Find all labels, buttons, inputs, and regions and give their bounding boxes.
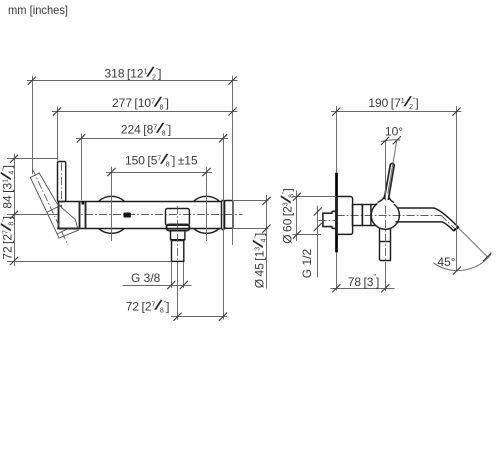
supply fitting G1/2 behind wall	[319, 211, 339, 228]
shower outlet pipe upper (front view)	[171, 231, 185, 240]
end cap Ø45 (front view)	[225, 201, 233, 229]
svg-text:mm [inches]: mm [inches]	[8, 3, 68, 17]
dimension G 3/8 label	[123, 262, 192, 289]
dimension 78 bottom (side view)	[331, 266, 395, 292]
svg-text:45°: 45°	[437, 255, 455, 269]
dimension 45 degrees spout angle	[433, 229, 491, 275]
lever stick 10deg (side view)	[384, 163, 394, 200]
svg-text:G 3/8: G 3/8	[131, 271, 161, 285]
mixer body circle (side view)	[371, 201, 399, 229]
lever handle open position (tilted, thin)	[30, 169, 78, 246]
flange rosette left (rear escutcheon, front view)	[99, 196, 124, 233]
wall line (side view)	[336, 106, 338, 291]
lever handle closed position (vertical)	[58, 162, 66, 202]
lever neck (side view)	[377, 196, 395, 207]
dimension diameter 60 (rotated, side view)	[277, 188, 336, 243]
dimension 318 top	[27, 64, 238, 246]
dimension 84 left (vertical)	[0, 154, 58, 267]
diverter nut bar	[167, 225, 190, 231]
outlet centerline vertical (side view)	[385, 206, 387, 266]
units note mm [inches]	[8, 3, 68, 17]
dimension 72 bottom	[126, 263, 227, 321]
joint rings on body near housing	[80, 201, 86, 229]
spout (side view)	[396, 208, 459, 231]
pipe centerline vertical	[177, 206, 179, 263]
dimension 224	[76, 120, 228, 320]
body tube (front view)	[79, 202, 222, 229]
temperature marker dot on body	[82, 202, 85, 205]
svg-text:G 1/2: G 1/2	[300, 249, 314, 279]
hot/cold marker on body	[124, 213, 131, 218]
diverter box on body (front view)	[166, 209, 190, 226]
connector ring 2	[363, 205, 377, 226]
end ring at body right	[222, 201, 225, 230]
dimension 150 +-15	[106, 151, 212, 241]
svg-text:72 [27⁄8"]: 72 [27⁄8"]	[0, 216, 16, 260]
dimension 72 left (vertical)	[0, 216, 171, 265]
svg-text:10°: 10°	[385, 125, 403, 139]
centerline main horizontal (side view)	[337, 215, 456, 229]
flange rosette right (rear escutcheon, front view)	[194, 196, 219, 233]
dimension 277	[52, 93, 238, 160]
dimension diameter 45 (rotated)	[234, 195, 271, 289]
dimension 190 top (side view)	[331, 93, 462, 272]
connector ring 1	[353, 205, 363, 226]
shower outlet pipe lower G3/8 (front view)	[172, 241, 184, 262]
svg-text:84 [31⁄4"]: 84 [31⁄4"]	[0, 165, 16, 209]
dimension G 1/2 (rotated, side view)	[300, 206, 322, 278]
wall escutcheon Ø60 (side view)	[337, 197, 353, 235]
cartridge housing block	[57, 201, 79, 230]
outlet below body G1/2 (side view)	[380, 228, 391, 261]
lever centerline vertical	[61, 163, 63, 207]
centerline main horizontal (front view)	[57, 214, 243, 216]
dimension 10 degrees	[381, 125, 403, 201]
